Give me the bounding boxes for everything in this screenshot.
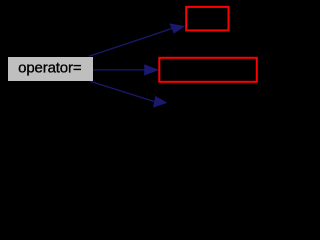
svg-text:operator=: operator= (18, 60, 82, 77)
